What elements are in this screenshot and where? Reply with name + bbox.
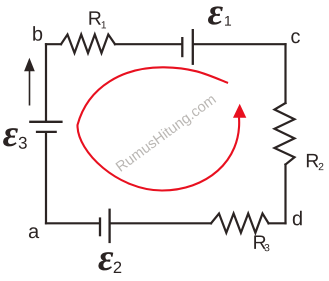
wire battery E2 to node a xyxy=(46,222,99,224)
resistor R1 xyxy=(61,35,115,54)
battery E2 (long positive plate) xyxy=(108,209,110,244)
battery E1 (long positive plate) xyxy=(192,29,194,65)
wire node d to resistor R3 xyxy=(269,222,286,224)
label R2 xyxy=(307,154,323,170)
wire resistor R1 to battery E1 xyxy=(115,43,181,45)
node a label xyxy=(29,227,39,238)
current direction arrow head xyxy=(24,58,35,71)
wire node c down to resistor R2 xyxy=(284,44,286,103)
battery E2 (short negative plate) xyxy=(99,217,101,236)
watermark RumusHitung.com xyxy=(115,96,216,171)
label R1 xyxy=(89,11,106,28)
wire node a up to battery E3 xyxy=(45,133,47,224)
current direction arrow shaft beside E3 xyxy=(29,70,31,106)
label E1 (emf epsilon 1) xyxy=(208,6,231,25)
wire node b to resistor R1 xyxy=(46,43,61,45)
red loop direction arrow (counterclockwise curve) xyxy=(77,67,239,190)
red loop arrow head xyxy=(233,104,246,118)
wire battery E1 to node c xyxy=(194,43,286,45)
label R3 xyxy=(254,236,269,252)
node b label xyxy=(33,26,42,41)
resistor R3 xyxy=(211,214,269,233)
node d label xyxy=(293,211,302,226)
wire resistor R2 to node d xyxy=(284,165,286,224)
label E2 (emf epsilon 2) xyxy=(98,252,121,273)
label E3 (emf epsilon 3) xyxy=(3,128,27,149)
battery E3 (long positive plate) xyxy=(29,121,62,123)
wire battery E3 up to node b xyxy=(45,44,47,121)
node c label xyxy=(291,32,300,43)
battery E1 (short negative plate) xyxy=(181,37,183,57)
resistor R2 xyxy=(275,103,295,165)
wire resistor R3 to battery E2 xyxy=(111,222,212,224)
battery E3 (short negative plate) xyxy=(36,131,57,133)
